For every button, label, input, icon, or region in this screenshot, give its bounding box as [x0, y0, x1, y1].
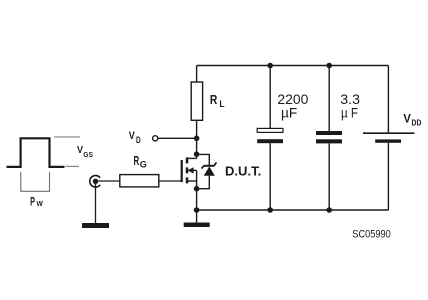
bottom rail: [197, 209, 389, 211]
pulse waveform V_GS: [7, 138, 65, 167]
wire source down to bottom rail: [196, 189, 198, 210]
node: bottom rail / C1: [267, 207, 273, 213]
wire connector to R_G: [96, 180, 120, 182]
body diode (zener) of D.U.T.: [197, 154, 217, 188]
terminal V_D: [153, 136, 158, 141]
svg-text:GS: GS: [83, 152, 93, 159]
label P_w: [30, 196, 43, 209]
capacitor C2 3.3uF: [316, 66, 342, 211]
node: top rail / C1: [267, 63, 273, 69]
node: drain / diode branch: [194, 151, 200, 157]
label V_DD: [403, 112, 421, 128]
resistor R_L: [191, 82, 202, 120]
reference line top (pulse high level): [54, 136, 80, 138]
transistor Q1 D.U.T. (N-MOSFET): [182, 138, 197, 188]
node: bottom rail / C2: [326, 207, 332, 213]
wire R_L to drain node: [196, 120, 198, 138]
P_w width bracket: [21, 172, 50, 192]
svg-text:L: L: [219, 99, 224, 110]
reference line bottom (pulse low level): [65, 165, 79, 167]
svg-text:DD: DD: [412, 119, 422, 128]
ground (left): [82, 223, 109, 228]
label V_GS: [77, 145, 93, 159]
wire R_G to gate: [159, 180, 182, 182]
svg-text:µ F: µ F: [341, 104, 358, 120]
svg-text:V: V: [129, 130, 136, 142]
svg-text:P: P: [30, 196, 35, 209]
ground (right, under D.U.T.): [184, 223, 210, 228]
svg-text:µF: µF: [281, 104, 297, 120]
node: source / bottom rail: [194, 207, 200, 213]
wire top rail to R_L: [196, 66, 198, 83]
svg-text:R: R: [134, 153, 140, 168]
wire source node to ground: [196, 210, 198, 223]
svg-text:D.U.T.: D.U.T.: [225, 165, 261, 179]
wire connector down to ground: [95, 181, 97, 223]
svg-text:V: V: [403, 112, 411, 126]
wire V_D terminal to drain: [158, 137, 197, 139]
capacitor C1 2200uF: [257, 66, 283, 211]
connector (signal input): [90, 175, 100, 187]
svg-text:R: R: [210, 92, 218, 107]
battery V_DD: [363, 66, 415, 211]
node: top rail / C2: [326, 63, 332, 69]
label V_D: [129, 130, 141, 145]
node: drain / V_D tap: [194, 136, 200, 142]
svg-text:W: W: [37, 199, 43, 208]
resistor R_G: [120, 175, 159, 187]
label R_G: [134, 153, 147, 170]
top rail: [197, 65, 389, 67]
svg-text:D: D: [136, 135, 141, 145]
label R_L: [210, 92, 225, 110]
svg-text:G: G: [140, 159, 147, 169]
node: source / diode branch: [194, 186, 200, 192]
svg-text:SC05990: SC05990: [352, 229, 390, 241]
